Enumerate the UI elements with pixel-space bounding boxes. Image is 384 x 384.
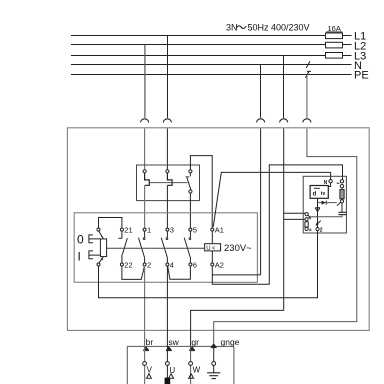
pushbutton NC contact terminal top: [97, 228, 100, 231]
earth symbol: [207, 365, 220, 378]
fuse F2 L2: [326, 42, 343, 48]
pin triangle U: [169, 374, 174, 379]
svg-text:d: d: [313, 191, 317, 197]
wire tap N down: [260, 65, 262, 118]
contact 21-22 NC: [118, 231, 127, 263]
wire 22 to 2 link: [122, 266, 144, 279]
module terminal L: [329, 180, 332, 183]
S1 aux pole terminal top: [189, 170, 192, 173]
gland hop PE wire: [303, 119, 311, 123]
wire L3 branch to module left terminals: [284, 212, 305, 214]
svg-text:50Hz 400/230V: 50Hz 400/230V: [248, 23, 310, 33]
wire A1 to module L terminal: [213, 172, 330, 227]
pin triangle W: [189, 374, 194, 379]
terminal 6: [189, 263, 192, 266]
motor terminal V: [143, 362, 147, 366]
svg-text:1: 1: [147, 226, 151, 235]
wire PE bus: [71, 74, 352, 76]
pushbutton 0 actuator: [89, 235, 101, 243]
svg-text:sw: sw: [168, 337, 179, 347]
wire S1 aux bottom to contact 5: [189, 193, 191, 228]
wire tap L2 down: [144, 45, 146, 118]
svg-text:4: 4: [170, 261, 174, 270]
contact 1-2 NO: [138, 231, 145, 263]
svg-text:6: 6: [193, 261, 197, 270]
wire S1 pole2 to contact 3: [166, 185, 168, 228]
wire L3 bus: [71, 55, 352, 57]
gland hop L3 wire: [280, 119, 288, 123]
connector pin U black: [165, 378, 171, 384]
wire capacitor return: [309, 215, 342, 217]
svg-text:0: 0: [77, 232, 84, 246]
svg-text:22: 22: [124, 261, 132, 270]
module bottom terminal: [316, 228, 319, 231]
svg-text:gr: gr: [191, 337, 199, 347]
wire 6 to 4 link: [168, 266, 191, 279]
svg-text:gnge: gnge: [221, 337, 240, 347]
undervoltage coil U<: [205, 231, 221, 263]
contact 5-6 NO: [184, 231, 191, 263]
contact 3-4 NO: [161, 231, 168, 263]
contactor Q1 box: [74, 213, 257, 282]
resistor R2: [305, 221, 308, 228]
svg-text:3: 3: [170, 226, 174, 235]
terminal 1: [143, 228, 146, 231]
main switch S1 box: [137, 165, 200, 201]
svg-text:21: 21: [124, 226, 132, 235]
svg-text:A1: A1: [215, 226, 224, 235]
svg-text:I: I: [78, 250, 81, 264]
S1 aux pole blade: [187, 178, 191, 190]
fuse F3 L3: [326, 53, 343, 59]
wire tap L3 down: [283, 56, 285, 118]
module left terminal out: [305, 218, 308, 221]
S1 aux pole fixed tick: [186, 173, 191, 177]
mechanical linkage: [107, 247, 205, 249]
gland hop L1 wire: [163, 119, 171, 123]
svg-text:V: V: [147, 365, 153, 374]
terminal A2: [211, 263, 214, 266]
wire S1 aux top to A1: [190, 156, 212, 229]
supply label 3N~50Hz 400/230V: [226, 23, 310, 33]
contact blade b1: [337, 202, 341, 205]
wire N drop to A2 junction: [260, 129, 262, 275]
brake contact blade: [308, 215, 311, 220]
logic box symbols: [313, 188, 326, 197]
svg-text:2: 2: [147, 261, 151, 270]
wire gnge into motor: [213, 346, 215, 362]
svg-text:tv: tv: [321, 191, 326, 197]
terminal A1: [211, 228, 214, 231]
wire sw phase from terminal 4: [166, 266, 168, 346]
module terminal pair top: [340, 180, 343, 183]
gland hop N wire: [257, 119, 265, 123]
ferrule br: [144, 347, 149, 350]
S1 linkage bar: [149, 182, 187, 184]
ferrule gnge: [211, 344, 216, 347]
terminal 21: [120, 228, 123, 231]
S1 aux pole terminal bottom: [189, 190, 192, 193]
motor terminal U: [166, 362, 170, 366]
wire N bus: [71, 64, 352, 66]
svg-text:230V~: 230V~: [224, 243, 252, 254]
wire bridge 0-contact to terminal 21: [99, 218, 122, 229]
terminal 22: [120, 263, 123, 266]
wire A2 to N: [212, 266, 260, 275]
svg-text:U: U: [169, 366, 175, 375]
thyristor arrow: [316, 221, 321, 226]
wire tap L1 down: [167, 36, 169, 118]
pushbutton mechanism box: [100, 239, 106, 257]
S1 pole2 terminal: [166, 170, 169, 173]
capacitor C1: [338, 203, 346, 215]
terminal 3: [166, 228, 169, 231]
pushbutton NC blade: [99, 231, 103, 239]
wire L2 drop inside enclosure to switch: [144, 129, 146, 170]
fuse F1 L1: [326, 33, 343, 39]
svg-text:U: U: [206, 246, 210, 252]
wire L3 drop to brake module: [283, 129, 285, 311]
motor terminal W: [189, 362, 193, 366]
brake module A10 box: [303, 176, 346, 233]
contact node circle: [340, 200, 343, 203]
wire pair to resistor: [341, 188, 343, 190]
wire bottom terminal out: [317, 231, 319, 233]
wire L2 bus: [71, 44, 352, 46]
S1 pole1 contact: [145, 173, 150, 185]
logic box: [310, 186, 328, 199]
gland hop L2 wire: [141, 119, 149, 123]
wire sw into motor: [166, 346, 168, 384]
resistor to contact node: [341, 198, 343, 201]
pushbutton NO contact terminal bottom: [97, 263, 100, 266]
S1 pole1 terminal: [143, 170, 146, 173]
svg-text:A2: A2: [215, 261, 224, 270]
fuse F1 16A label: [326, 24, 343, 33]
wire I-button to module trigger: [99, 233, 318, 298]
wire S1 pole1 to contact 1: [144, 185, 146, 228]
terminal 2: [143, 263, 146, 266]
resistor R1: [340, 190, 344, 199]
wire br phase from terminal 2: [144, 266, 146, 346]
terminal 4: [166, 263, 169, 266]
PE conductor mark: [305, 71, 311, 78]
wire terminal L to logic box: [328, 183, 330, 187]
wire A2 branch to module N terminal: [212, 165, 342, 284]
svg-text:W: W: [193, 365, 201, 374]
wire module left lower terminal out: [284, 218, 305, 220]
pin triangle V: [146, 374, 151, 379]
wire gr into motor: [190, 346, 192, 384]
wire L1 drop inside enclosure to switch: [166, 129, 168, 170]
wire L1 bus: [71, 35, 352, 37]
S1 pole2 contact: [167, 173, 172, 185]
wire gr phase from brake module: [191, 310, 284, 346]
wire logic box down: [317, 198, 319, 207]
motor terminal PE: [212, 362, 216, 366]
svg-text:3N: 3N: [226, 23, 238, 33]
wire br into motor: [144, 346, 146, 384]
zener Z1: [315, 208, 320, 228]
enclosure box: [67, 128, 369, 331]
ferrule sw: [167, 347, 172, 350]
pushbutton I actuator: [89, 251, 101, 259]
diode D1: [318, 201, 337, 205]
svg-text:5: 5: [193, 226, 197, 235]
pushbutton NO blade: [99, 257, 103, 263]
svg-text:2: 2: [320, 227, 323, 233]
N conductor mark: [306, 61, 310, 68]
node circle R2 bottom: [305, 227, 308, 230]
svg-text:br: br: [146, 337, 154, 347]
terminal 5: [189, 228, 192, 231]
ferrule gr: [190, 347, 195, 350]
svg-text:PE: PE: [354, 70, 369, 82]
minus tick: [337, 182, 340, 184]
wire PE drop: [214, 129, 357, 346]
module terminal pair bottom: [340, 185, 343, 188]
wire tap PE down: [306, 75, 308, 118]
module left terminal in: [305, 213, 308, 216]
motor connection box: [127, 346, 234, 384]
